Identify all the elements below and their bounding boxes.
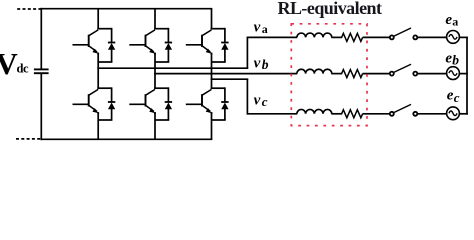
wire leg 3 lower emitter to junction <box>211 112 213 120</box>
wire DC bus left vertical (upper part) <box>40 8 42 69</box>
wire leg 1 lower emitter to junction <box>97 112 99 120</box>
transistor Q1 upper (IGBT with freewheel diode D1) <box>73 28 116 55</box>
switch Sb right contact <box>413 72 417 76</box>
wire v_c line into RL branch <box>247 113 297 115</box>
svg-text:e: e <box>447 87 454 103</box>
transistor Q5 upper (IGBT with freewheel diode D5) <box>186 28 229 55</box>
wire leg 3 lower diode to junction <box>224 109 226 120</box>
wire between switch Sa and source e_a <box>418 36 447 38</box>
resistor Ra <box>342 33 363 41</box>
RL-equivalent red dotted boundary box <box>291 24 367 126</box>
svg-text:b: b <box>262 57 269 72</box>
wire leg 2 emitter to bottom rail <box>154 120 156 139</box>
svg-text:RL-equivalent: RL-equivalent <box>278 0 383 18</box>
AC source e_b (grid emf) <box>447 67 460 80</box>
wire grid-side right bus vertical <box>466 37 468 115</box>
svg-text:v: v <box>254 56 261 72</box>
capacitor C_dc bottom plate <box>34 72 49 74</box>
wire between Lc and Rc <box>331 113 342 115</box>
wire leg 2 collector drop from top rail <box>154 9 156 30</box>
wire source e_b to right bus <box>459 73 468 75</box>
wire between switch Sc and source e_c <box>418 113 447 115</box>
switch Sc blade <box>394 104 411 112</box>
wire leg 3 emitter to bottom rail <box>211 120 213 139</box>
transistor Q4 lower (IGBT with freewheel diode D4) <box>73 87 116 114</box>
wire leg 1 lower diode to junction <box>111 109 113 120</box>
wire leg 3 collector drop from top rail <box>211 9 213 30</box>
switch Sc left contact <box>390 112 394 116</box>
inductor Lc <box>297 109 332 113</box>
wire leg 2 lower diode to junction <box>167 109 169 120</box>
wire positive DC rail (top) <box>40 8 212 10</box>
transistor Q6 lower (IGBT with freewheel diode D6) <box>129 87 172 114</box>
wire leg 2 upper junction bar <box>155 61 169 63</box>
wire phase-c dropper down to v_c level <box>246 79 248 114</box>
svg-text:v: v <box>254 93 261 109</box>
wire leg 1 midpoint vertical <box>97 62 99 89</box>
switch Sa blade <box>394 28 411 36</box>
wire between Ra and switch Sa <box>363 36 390 38</box>
wire leg 2 lower junction bar <box>155 119 169 121</box>
dashed figure-border remnant, bottom-left <box>16 138 41 140</box>
svg-text:dc: dc <box>17 62 29 76</box>
switch Sb left contact <box>390 72 394 76</box>
wire leg 1 collector drop from top rail <box>97 9 99 30</box>
svg-text:v: v <box>254 19 261 35</box>
wire leg 2 lower emitter to junction <box>154 112 156 120</box>
wire between La and Ra <box>331 36 342 38</box>
svg-text:a: a <box>452 15 458 29</box>
inductor La <box>297 33 332 37</box>
inductor Lb <box>297 69 332 73</box>
wire phase-a output from leg 1 midpoint <box>97 67 248 69</box>
wire between Rb and switch Sb <box>363 73 390 75</box>
wire leg 3 midpoint vertical <box>211 62 213 89</box>
wire leg 3 upper junction bar <box>212 61 226 63</box>
wire phase-a riser up to v_a level <box>246 37 248 69</box>
capacitor C_dc top plate <box>34 68 49 70</box>
wire leg 3 upper diode to midpoint <box>224 49 226 62</box>
switch Sb blade <box>394 64 411 72</box>
wire between Lb and Rb <box>331 73 342 75</box>
wire between switch Sb and source e_b <box>418 73 447 75</box>
wire leg 2 midpoint vertical <box>154 62 156 89</box>
wire leg 3 lower junction bar <box>212 119 226 121</box>
wire source e_a to right bus <box>459 36 468 38</box>
wire leg 1 upper emitter to midpoint <box>97 53 99 62</box>
wire leg 2 upper emitter to midpoint <box>154 53 156 62</box>
wire leg 2 upper diode to midpoint <box>167 49 169 62</box>
switch Sc right contact <box>413 112 417 116</box>
dashed figure-border remnant, top-left <box>17 8 41 10</box>
wire source e_c to right bus <box>459 113 468 115</box>
svg-text:b: b <box>452 53 459 68</box>
wire v_a line into RL branch <box>247 36 297 38</box>
transistor Q3 upper (IGBT with freewheel diode D3) <box>129 28 172 55</box>
AC source e_c (grid emf) <box>447 107 460 120</box>
switch Sa left contact <box>390 35 394 39</box>
svg-text:a: a <box>262 22 268 36</box>
wire leg 3 upper emitter to midpoint <box>211 53 213 62</box>
transistor Q2 lower (IGBT with freewheel diode D2) <box>186 87 229 114</box>
resistor Rc <box>342 110 363 118</box>
wire leg 1 upper diode to midpoint <box>111 49 113 62</box>
wire leg 1 emitter to bottom rail <box>97 120 99 139</box>
switch Sa right contact <box>413 35 417 39</box>
wire leg 1 upper junction bar <box>98 61 112 63</box>
wire v_b line into RL branch <box>154 73 297 75</box>
svg-text:c: c <box>454 90 460 105</box>
wire negative DC rail (bottom) <box>40 138 212 140</box>
wire DC bus left vertical (lower part) <box>40 73 42 140</box>
wire leg 1 lower junction bar <box>98 119 112 121</box>
svg-text:c: c <box>262 94 268 109</box>
AC source e_a (grid emf) <box>447 31 460 44</box>
wire phase-c output from leg 3 midpoint <box>211 78 249 80</box>
wire between Rc and switch Sc <box>363 113 390 115</box>
resistor Rb <box>342 70 363 78</box>
